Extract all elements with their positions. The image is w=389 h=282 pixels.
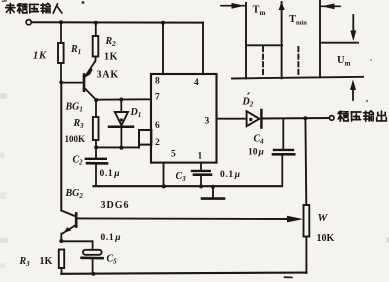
wire: pin 3 output	[217, 118, 247, 120]
wire: W bottom to bottom rail	[305, 237, 307, 274]
svg-text:100K: 100K	[65, 134, 86, 144]
wiper arrow of W	[77, 217, 290, 220]
svg-text:5: 5	[171, 150, 176, 160]
capacitor C5 0.1u	[82, 250, 103, 273]
waveform: Um down arrow	[352, 15, 354, 36]
resistor R4 1K (emitter)	[59, 250, 64, 269]
wire: pin 4 supply	[202, 23, 204, 74]
wire: bottom rail	[61, 273, 306, 274]
IC 555 box	[151, 74, 217, 163]
svg-text:1: 1	[198, 152, 203, 162]
waveform: left measure arrow	[221, 5, 244, 7]
capacitor C2 0.1u	[86, 147, 107, 186]
capacitor C4 10u	[273, 119, 294, 186]
scan specks	[82, 1, 85, 4]
svg-text:7: 7	[155, 93, 160, 103]
transistor BG1 (3AK PNP)	[61, 62, 96, 100]
svg-text:2: 2	[155, 138, 160, 148]
svg-text:0.1μ: 0.1μ	[100, 169, 121, 179]
wire: timing node R3/D1/C2 to pins 2-6	[96, 146, 139, 148]
node: rail junction R2	[94, 21, 98, 25]
label: 未稳压输入	[6, 4, 15, 14]
svg-text:6: 6	[155, 121, 160, 131]
ground symbol	[212, 187, 214, 198]
svg-text:0.1μ: 0.1μ	[220, 170, 241, 180]
waveform: boundary line 1	[245, 3, 247, 78]
wire: emitter to C5	[61, 240, 92, 242]
svg-text:1K: 1K	[40, 256, 53, 267]
svg-text:3: 3	[205, 117, 210, 127]
node: emitter junction	[59, 239, 63, 243]
waveform: boundary line 2 with up arrow	[281, 2, 283, 78]
wire: top supply rail	[32, 21, 204, 23]
wire: pin 8 supply	[162, 23, 164, 74]
node: rail junction R1	[59, 20, 63, 24]
svg-text:3AK: 3AK	[97, 70, 119, 81]
wire: D2 to output terminal	[261, 117, 329, 120]
wire: mid ground rail	[94, 185, 283, 187]
waveform: Um up arrow	[352, 85, 354, 100]
svg-text:8: 8	[155, 77, 160, 87]
polarity dash under rail	[285, 276, 293, 278]
waveform: baseline	[232, 77, 363, 79]
svg-text:3DG6: 3DG6	[101, 200, 130, 211]
wire: collector node to pin 7	[96, 98, 151, 100]
resistor R3 100K	[95, 100, 97, 117]
resistor R2 1K	[95, 23, 97, 36]
potentiometer W 10K	[304, 205, 310, 237]
waveform: dashed mid 2	[297, 47, 299, 77]
svg-text:1K: 1K	[33, 51, 47, 62]
diode D2	[247, 110, 262, 128]
waveform: pulse top 2	[320, 42, 358, 44]
node: rail junction pin8	[161, 21, 165, 25]
waveform: boundary line 3	[319, 0, 321, 77]
capacitor C3 0.1u on pin 1	[192, 163, 211, 187]
svg-text:10K: 10K	[317, 233, 335, 244]
svg-text:10μ: 10μ	[248, 148, 264, 158]
resistor R1 1K (left)	[60, 22, 62, 43]
terminal: regulated output	[329, 116, 334, 121]
waveform: pulse top 1	[246, 44, 282, 46]
transistor BG2 (3DG6 NPN)	[61, 83, 76, 241]
svg-text:4: 4	[194, 78, 199, 88]
svg-text:1K: 1K	[104, 52, 118, 63]
waveform: right measure arrow	[321, 5, 341, 7]
svg-text:W: W	[318, 212, 329, 224]
wire: output node down to potentiometer	[304, 118, 307, 205]
label: 稳压输出	[338, 111, 348, 121]
svg-text:0.1μ: 0.1μ	[101, 233, 122, 243]
wire: pin2/pin6 loop square	[139, 130, 151, 145]
diode D1	[109, 100, 133, 149]
terminal: unregulated input	[26, 20, 31, 25]
waveform: dashed mid 1	[262, 47, 264, 77]
wire: pin 5 to ground rail	[163, 163, 165, 187]
